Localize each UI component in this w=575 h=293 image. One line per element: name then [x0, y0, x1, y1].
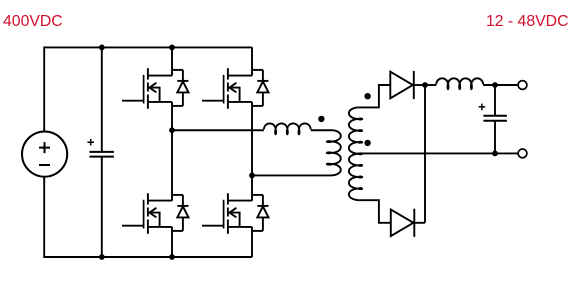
- wire left bottom: [44, 177, 252, 257]
- junction bottom rail / left leg: [169, 254, 175, 260]
- capacitor C2 output: [494, 85, 496, 115]
- junction C2 top: [492, 82, 498, 88]
- transistor Q1 upper-left MOSFET: [122, 68, 189, 109]
- voltage source V1 400VDC: [22, 132, 67, 177]
- wire left top: [44, 47, 252, 131]
- transistor Q2 upper-right MOSFET: [202, 68, 269, 109]
- junction bottom rail / C1: [99, 254, 105, 260]
- wire D1 to L2: [425, 84, 436, 86]
- inductor L1 series resonant: [264, 123, 311, 129]
- junction C2 bottom: [492, 151, 498, 157]
- wire secondary top to D1: [358, 85, 390, 107]
- inductor L2 output filter: [436, 78, 483, 84]
- wire inductor to primary: [311, 129, 332, 131]
- wire secondary bottom to D2: [358, 200, 391, 223]
- junction top rail / C1: [99, 45, 105, 51]
- wire primary return: [252, 174, 332, 176]
- transistor Q3 lower-left MOSFET: [122, 193, 189, 234]
- polarity dot secondary center: [364, 140, 370, 146]
- terminal output negative: [518, 149, 527, 158]
- wire right leg: [251, 47, 253, 257]
- wire L2 to output: [483, 84, 518, 86]
- junction left leg midpoint node A: [169, 127, 175, 133]
- junction rectifier output node: [422, 82, 428, 88]
- wire rectifier cathodes join: [424, 85, 426, 223]
- terminal output positive: [518, 81, 527, 90]
- transformer T1 primary winding: [332, 130, 341, 175]
- junction top rail / left leg: [169, 45, 175, 51]
- diode D1 top rectifier: [390, 72, 413, 99]
- svg-text:12 - 48VDC: 12 - 48VDC: [486, 13, 569, 30]
- transistor Q4 lower-right MOSFET: [202, 193, 269, 234]
- capacitor C1 input bulk: [101, 47, 103, 151]
- polarity dot secondary top: [364, 93, 370, 99]
- diode D2 bottom rectifier: [391, 210, 414, 237]
- junction right leg / primary return node B: [249, 173, 255, 179]
- polarity dot primary: [318, 116, 324, 122]
- wire bridge mid to inductor: [172, 129, 264, 131]
- wire center tap: [358, 152, 518, 154]
- wire left leg: [171, 47, 173, 257]
- transformer T1 secondary winding (center-tapped): [349, 107, 358, 200]
- svg-text:400VDC: 400VDC: [3, 13, 63, 30]
